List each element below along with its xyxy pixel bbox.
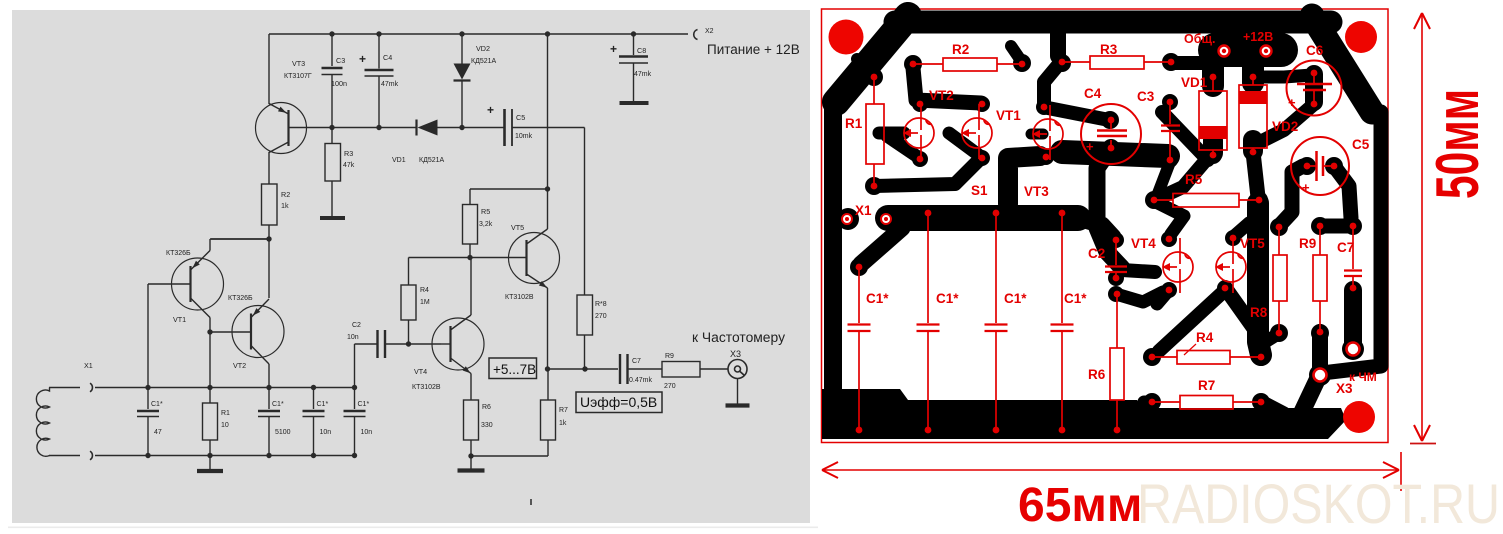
- copper trace C6 bottom diag: [1262, 105, 1313, 141]
- svg-text:1M: 1M: [420, 299, 430, 306]
- copper trace VT3 top node: [1036, 64, 1059, 115]
- capacitor C7 (PCB): [1337, 223, 1362, 292]
- wire VT3 collector to R2: [268, 152, 270, 184]
- capacitor C1b (PCB): [917, 210, 960, 434]
- svg-text:КТ3102В: КТ3102В: [505, 294, 534, 301]
- capacitor C1a (PCB): [848, 264, 890, 434]
- capacitor C1d (PCB): [1051, 210, 1088, 434]
- svg-text:C4: C4: [383, 53, 392, 62]
- svg-text:Общ.: Общ.: [1184, 32, 1215, 46]
- resistor R6 (PCB): [1088, 291, 1124, 434]
- diode VD1: [392, 120, 444, 165]
- capacitor C3: [322, 31, 348, 130]
- svg-text:R4: R4: [1196, 330, 1214, 345]
- resistor R7: [471, 369, 568, 456]
- resistor R1 (PCB): [845, 74, 884, 190]
- transistor VT2 (PCB): [903, 88, 954, 162]
- svg-text:VD1: VD1: [392, 157, 406, 164]
- ground below R6: [458, 453, 485, 470]
- copper trace VD1 to R5: [1145, 153, 1212, 209]
- transistor VT3: [256, 59, 333, 154]
- copper stub VT4 bottom: [1157, 282, 1177, 304]
- wire top power rail: [269, 33, 688, 35]
- wire C5 node to R8 top: [584, 128, 586, 296]
- resistor R4 (PCB): [1149, 330, 1265, 364]
- pad +12V: [1243, 30, 1273, 57]
- copper trace C3 diag: [1162, 94, 1208, 168]
- svg-text:10: 10: [221, 422, 229, 429]
- svg-text:Питание + 12В: Питание + 12В: [707, 42, 800, 57]
- copper trace right border bus: [1322, 112, 1381, 373]
- capacitor C1d (10n): [344, 385, 373, 458]
- capacitor C1a (47): [137, 385, 163, 458]
- copper stub R8 bottom: [1262, 324, 1288, 344]
- wire VT1 collector / VT2 base: [207, 318, 251, 388]
- svg-text:R4: R4: [420, 287, 429, 294]
- resistor R9 (270): [662, 353, 728, 390]
- capacitor C3 (PCB): [1137, 89, 1180, 163]
- small tick mark: [530, 499, 532, 505]
- box +5...7В: [489, 358, 537, 379]
- copper pad X1 right: [876, 209, 896, 229]
- svg-text:X1: X1: [84, 361, 93, 370]
- svg-text:+: +: [1288, 95, 1296, 110]
- svg-text:C3: C3: [336, 56, 345, 65]
- box Uэфф=0,5В: [576, 392, 662, 413]
- copper trace to R3 left: [1053, 30, 1071, 72]
- svg-text:VD1: VD1: [1181, 75, 1208, 90]
- svg-text:+: +: [1302, 180, 1310, 195]
- PCB board outline: [822, 9, 1389, 443]
- svg-text:КТ3102В: КТ3102В: [412, 384, 441, 391]
- copper trace VT2 emitter: [879, 127, 904, 140]
- wire VT3 emitter to rail: [268, 34, 270, 104]
- transistor VT2: [228, 295, 284, 370]
- svg-text:47: 47: [154, 429, 162, 436]
- wire VT5 emitter output node: [545, 288, 618, 372]
- svg-text:R1: R1: [845, 116, 863, 131]
- label X3 (PCB): [1336, 381, 1353, 396]
- transistor VT4: [412, 315, 484, 391]
- label 65мм: [1018, 479, 1142, 532]
- svg-text:VT4: VT4: [1131, 236, 1156, 251]
- copper trace VT1 lower diag: [949, 133, 990, 166]
- svg-text:C1*: C1*: [866, 291, 889, 306]
- mounting hole top-right: [1345, 21, 1377, 53]
- copper trace VT1/VT2 top link: [904, 55, 990, 112]
- copper pads VD1: [1204, 62, 1222, 164]
- copper pour Obsh +12V: [1215, 33, 1281, 67]
- diode VD1 (PCB): [1181, 74, 1227, 159]
- svg-text:R9: R9: [665, 353, 674, 360]
- transistor VT4 (PCB): [1131, 236, 1193, 294]
- copper trace VT3 down: [1008, 134, 1054, 204]
- copper pour top right corner: [1312, 16, 1372, 112]
- capacitor C6 (PCB): [1287, 43, 1342, 116]
- resistor R2 (PCB): [910, 42, 1026, 71]
- label X1 (PCB): [855, 203, 872, 218]
- copper trace C3 to R5: [1157, 162, 1170, 196]
- svg-text:100n: 100n: [331, 79, 347, 88]
- resistor R6: [464, 400, 493, 456]
- svg-text:C5: C5: [1352, 137, 1370, 152]
- copper stub R7 left: [1143, 393, 1161, 411]
- copper trace R5 to VT4 top: [1156, 202, 1184, 247]
- svg-text:VT1: VT1: [996, 108, 1021, 123]
- capacitor C5 (PCB): [1291, 137, 1370, 195]
- dimension line 50mm: [1410, 13, 1436, 444]
- schematic panel background: [8, 10, 818, 528]
- copper trace R7 right: [1252, 393, 1284, 414]
- resistor R5 (PCB): [1151, 172, 1263, 207]
- resistor R5: [463, 189, 493, 258]
- svg-text:+5...7В: +5...7В: [493, 362, 536, 377]
- wire C7 to R9: [628, 368, 663, 370]
- copper trace mid band: [1062, 152, 1168, 156]
- copper stub R2 right: [1011, 46, 1031, 72]
- pad X3 gnd: [1314, 369, 1327, 382]
- svg-text:270: 270: [664, 383, 676, 390]
- ground below X3: [726, 379, 750, 406]
- transistor VT5: [470, 223, 560, 301]
- svg-text:R2: R2: [952, 42, 969, 57]
- svg-text:C1*: C1*: [151, 401, 163, 408]
- wire VT4 emitter to R6: [470, 374, 472, 401]
- svg-text:S1: S1: [971, 183, 988, 198]
- svg-text:КТ326Б: КТ326Б: [166, 250, 191, 257]
- copper trace VD2 to R5 right: [1250, 152, 1268, 209]
- wire R2 to emitters node: [268, 225, 270, 239]
- svg-text:к Частотомеру: к Частотомеру: [692, 330, 785, 345]
- connector X3: [728, 349, 747, 379]
- copper stub R1 top: [857, 59, 883, 86]
- svg-text:10n: 10n: [320, 429, 332, 436]
- svg-text:270: 270: [595, 313, 607, 320]
- copper trace right vertical bus: [1252, 203, 1270, 366]
- wire X1 top line: [95, 387, 355, 389]
- label к ЧМ: [1349, 370, 1377, 384]
- svg-text:КТ3107Г: КТ3107Г: [284, 73, 312, 80]
- svg-text:R*8: R*8: [595, 301, 607, 308]
- copper pads C6: [1305, 74, 1323, 102]
- ground below R3: [320, 216, 345, 220]
- svg-text:R1: R1: [221, 410, 230, 417]
- copper trace common emitter bus: [865, 158, 981, 195]
- svg-text:R7: R7: [1198, 378, 1215, 393]
- svg-text:X3: X3: [730, 349, 741, 359]
- copper trace top rail: [895, 11, 1331, 34]
- svg-text:C2: C2: [352, 322, 361, 329]
- svg-text:C1*: C1*: [272, 401, 284, 408]
- svg-text:+: +: [1086, 139, 1094, 154]
- diode VD2 (PCB): [1239, 74, 1298, 156]
- pad X1 right: [881, 214, 891, 224]
- svg-text:VT3: VT3: [1024, 184, 1049, 199]
- wire C2 to VT4 base: [406, 341, 441, 346]
- svg-text:R3: R3: [1100, 42, 1118, 57]
- svg-text:RADIOSKOT.RU: RADIOSKOT.RU: [1137, 472, 1500, 534]
- copper pads VD2: [1244, 62, 1262, 161]
- copper trace VT5 bottom diag: [1217, 280, 1253, 327]
- watermark RADIOSKOT.RU: [1137, 472, 1500, 534]
- resistor R9 (PCB): [1299, 223, 1327, 336]
- svg-text:X3: X3: [1336, 381, 1353, 396]
- copper pad R3 right: [1162, 53, 1210, 71]
- svg-text:R7: R7: [559, 407, 568, 414]
- wire VT4 collector: [470, 258, 472, 316]
- svg-text:R6: R6: [1088, 367, 1106, 382]
- svg-text:VT2: VT2: [233, 361, 246, 370]
- label к Частотомеру: [692, 330, 785, 345]
- svg-text:C1*: C1*: [358, 401, 370, 408]
- label S1 (PCB): [971, 183, 988, 198]
- svg-text:3,2k: 3,2k: [479, 221, 493, 228]
- svg-text:R5: R5: [481, 207, 490, 216]
- svg-text:VT2: VT2: [929, 88, 954, 103]
- copper trace to X3 pad1: [1342, 290, 1364, 360]
- wire VT3 base line: [332, 127, 585, 129]
- copper trace X3 pad2 to pour: [1300, 364, 1331, 416]
- copper trace R8 top to C5: [1270, 157, 1316, 236]
- copper trace S1 bus: [888, 205, 1078, 231]
- capacitor C4 (PCB): [1081, 86, 1141, 164]
- label Питание + 12В: [707, 42, 800, 57]
- copper pads C2/R6: [1108, 270, 1163, 302]
- pad Obsh: [1184, 32, 1230, 57]
- svg-text:C5: C5: [516, 113, 525, 122]
- svg-text:C1*: C1*: [936, 291, 959, 306]
- copper pad X1 left: [837, 208, 859, 230]
- wire VT1 emitter: [210, 239, 269, 251]
- capacitor C8: [610, 31, 652, 101]
- svg-text:65мм: 65мм: [1018, 479, 1142, 532]
- svg-text:к ЧМ: к ЧМ: [1349, 370, 1377, 384]
- capacitor C5: [487, 103, 533, 146]
- capacitor C2: [347, 322, 409, 388]
- svg-text:C7: C7: [1337, 240, 1354, 255]
- svg-text:330: 330: [481, 422, 493, 429]
- svg-text:5100: 5100: [275, 429, 291, 436]
- svg-text:Uэфф=0,5В: Uэфф=0,5В: [580, 394, 657, 410]
- svg-text:C1*: C1*: [317, 401, 329, 408]
- resistor R2: [262, 184, 291, 225]
- svg-text:R6: R6: [482, 404, 491, 411]
- svg-text:КТ326Б: КТ326Б: [228, 295, 253, 302]
- mounting hole bottom-right: [1343, 401, 1375, 433]
- pad X3 out: [1347, 343, 1360, 356]
- svg-text:+: +: [610, 42, 617, 56]
- svg-text:47mk: 47mk: [381, 81, 399, 88]
- svg-text:C6: C6: [1306, 43, 1324, 58]
- svg-text:C1*: C1*: [1064, 291, 1087, 306]
- copper trace C6 to VD2 top: [1256, 75, 1312, 77]
- capacitor C2 (PCB): [1088, 237, 1127, 282]
- wire VT2 collector down: [268, 364, 270, 388]
- copper trace R9 bottom: [1311, 324, 1329, 372]
- svg-text:10n: 10n: [347, 334, 359, 341]
- resistor R8 (PCB): [1250, 224, 1287, 337]
- capacitor C1b (5100): [258, 385, 291, 458]
- wire X1 bottom line: [95, 455, 355, 457]
- capacitor C7: [620, 354, 652, 384]
- svg-text:КД521А: КД521А: [419, 157, 444, 164]
- svg-text:C4: C4: [1084, 86, 1102, 101]
- capacitor C1c (10n): [303, 385, 332, 458]
- resistor R3: [325, 128, 355, 217]
- svg-text:КД521А: КД521А: [471, 58, 496, 65]
- svg-text:47k: 47k: [343, 162, 355, 169]
- svg-text:VT1: VT1: [173, 315, 186, 324]
- svg-text:VT4: VT4: [414, 367, 427, 376]
- svg-text:VD2: VD2: [476, 44, 490, 53]
- copper pour bottom: [822, 389, 1346, 439]
- svg-text:+: +: [487, 103, 494, 117]
- mounting hole top-left: [829, 20, 864, 55]
- copper stub VT5 top: [1225, 223, 1249, 246]
- copper trace S1 to C2: [1078, 218, 1124, 248]
- svg-text:1k: 1k: [281, 201, 289, 210]
- resistor R4: [401, 258, 430, 345]
- ground below C8: [620, 101, 649, 105]
- transistor VT1 (PCB): [961, 101, 1021, 162]
- svg-text:C8: C8: [637, 46, 646, 55]
- copper trace corner diagonal: [836, 16, 908, 102]
- capacitor C4: [359, 31, 399, 130]
- transistor VT1: [148, 250, 224, 324]
- copper trace C5 right to C7: [1325, 157, 1362, 235]
- node VT1/VT2 emitters: [211, 236, 272, 298]
- svg-text:0.47mk: 0.47mk: [629, 377, 652, 384]
- wire rail to VT5 collector: [545, 31, 550, 229]
- svg-text:X1: X1: [855, 203, 872, 218]
- svg-text:VT5: VT5: [511, 223, 524, 232]
- svg-text:1k: 1k: [559, 420, 567, 427]
- copper trace C4 bottom chain: [1097, 139, 1155, 272]
- svg-text:R9: R9: [1299, 236, 1316, 251]
- wire node to R5: [470, 186, 550, 191]
- transistor VT3 (PCB): [1024, 104, 1063, 199]
- resistor R1: [203, 385, 231, 458]
- svg-text:C2: C2: [1088, 246, 1105, 261]
- copper trace VT2 bottom diag: [887, 136, 928, 167]
- ground below R1: [197, 456, 223, 472]
- copper trace R9 to C7: [1311, 217, 1350, 235]
- svg-text:50мм: 50мм: [1424, 89, 1491, 199]
- svg-text:C7: C7: [632, 358, 641, 365]
- svg-text:VT3: VT3: [292, 59, 305, 68]
- svg-text:R3: R3: [344, 149, 353, 158]
- svg-text:VT5: VT5: [1240, 236, 1265, 251]
- copper trace VT3 to C4: [1048, 108, 1119, 129]
- capacitor C1c (PCB): [985, 210, 1028, 434]
- resistor R7 (PCB): [1149, 378, 1265, 409]
- resistor R3 (PCB): [1059, 42, 1175, 69]
- wire VT5 base node: [409, 255, 473, 260]
- dimension line 65mm: [822, 452, 1401, 491]
- svg-text:X2: X2: [705, 28, 714, 35]
- svg-text:R2: R2: [281, 190, 290, 199]
- wire VT1 base down: [147, 284, 149, 388]
- transistor VT5 (PCB): [1215, 235, 1265, 293]
- inductor L with connector X1: [36, 361, 92, 460]
- svg-text:10mk: 10mk: [515, 133, 533, 140]
- copper pour left edge: [824, 103, 842, 426]
- svg-text:+: +: [359, 52, 366, 66]
- svg-text:R5: R5: [1185, 172, 1203, 187]
- svg-text:+12В: +12В: [1243, 30, 1273, 44]
- copper branch to C1a: [850, 228, 902, 276]
- pad X1 left: [842, 214, 852, 224]
- svg-text:C3: C3: [1137, 89, 1155, 104]
- copper trace R4 left diag: [1143, 293, 1222, 366]
- svg-text:C1*: C1*: [1004, 291, 1027, 306]
- label 50мм: [1424, 89, 1491, 199]
- diode VD2: [454, 31, 497, 130]
- connector X2: [694, 28, 714, 40]
- svg-text:R8: R8: [1250, 305, 1268, 320]
- resistor R8 (270): [577, 295, 607, 369]
- svg-text:10n: 10n: [361, 429, 373, 436]
- svg-text:47mk: 47mk: [634, 71, 652, 78]
- svg-text:VD2: VD2: [1272, 119, 1298, 134]
